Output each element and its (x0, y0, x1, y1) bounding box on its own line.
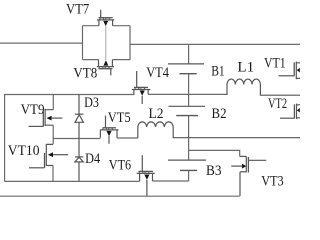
svg-text:VT1: VT1 (264, 56, 286, 72)
svg-text:B1: B1 (211, 64, 225, 80)
wire VT7 VT8 center link (105, 26, 107, 60)
wire VT9 drain drop (52, 95, 54, 110)
svg-text:D4: D4 (85, 151, 100, 167)
battery B3 (168, 160, 206, 170)
svg-text:VT3: VT3 (261, 174, 284, 190)
wire B3 to VT3 feed (189, 150, 240, 156)
wire VT9 source to VT10 drain (52, 125, 54, 144)
transistor VT9 (29, 109, 63, 127)
inductor L2 (138, 122, 300, 138)
svg-text:VT6: VT6 (109, 158, 132, 174)
wire mid horizontal y138.5 (53, 138, 100, 140)
node DC bus vertical (188, 44, 190, 181)
transistor VT5 (100, 116, 118, 144)
svg-text:VT9: VT9 (21, 102, 45, 118)
svg-text:VT2: VT2 (268, 96, 287, 112)
wire VT10 source drop (52, 166, 54, 182)
svg-text:L1: L1 (237, 60, 254, 76)
diode D3 (75, 95, 83, 139)
node bridge box VT7 VT8 (83, 26, 131, 60)
svg-text:L2: L2 (149, 106, 164, 122)
transistor VT10 (29, 144, 68, 168)
battery B2 (169, 106, 206, 115)
svg-text:VT5: VT5 (108, 110, 131, 126)
wire mid-left horizontal (5, 94, 135, 96)
svg-text:D3: D3 (84, 95, 99, 111)
svg-text:B2: B2 (212, 106, 227, 122)
wire left bracket vertical (4, 94, 6, 182)
svg-text:VT7: VT7 (66, 2, 90, 18)
wire bottom bus y181 (5, 180, 189, 182)
inductor L1 (227, 79, 300, 95)
battery B1 (168, 64, 204, 74)
diode D4 (75, 139, 83, 182)
wire bottom rail y196 (0, 195, 240, 197)
transistor VT1 (279, 62, 301, 80)
transistor VT6 (137, 155, 155, 196)
transistor VT8 (97, 60, 114, 76)
transistor VT7 (97, 10, 114, 26)
transistor VT2 (280, 104, 300, 119)
svg-text:VT4: VT4 (146, 65, 169, 81)
wire VT5 right rail to L2 (117, 137, 138, 139)
svg-text:VT8: VT8 (73, 66, 97, 82)
svg-text:B3: B3 (206, 163, 222, 179)
wire top-right rail (130, 43, 301, 45)
transistor VT4 (132, 71, 150, 104)
wire VT4 right to L1 junction (148, 93, 227, 95)
transistor VT3 (231, 156, 266, 196)
svg-text:VT10: VT10 (8, 143, 40, 159)
wire top-left rail (0, 42, 83, 44)
